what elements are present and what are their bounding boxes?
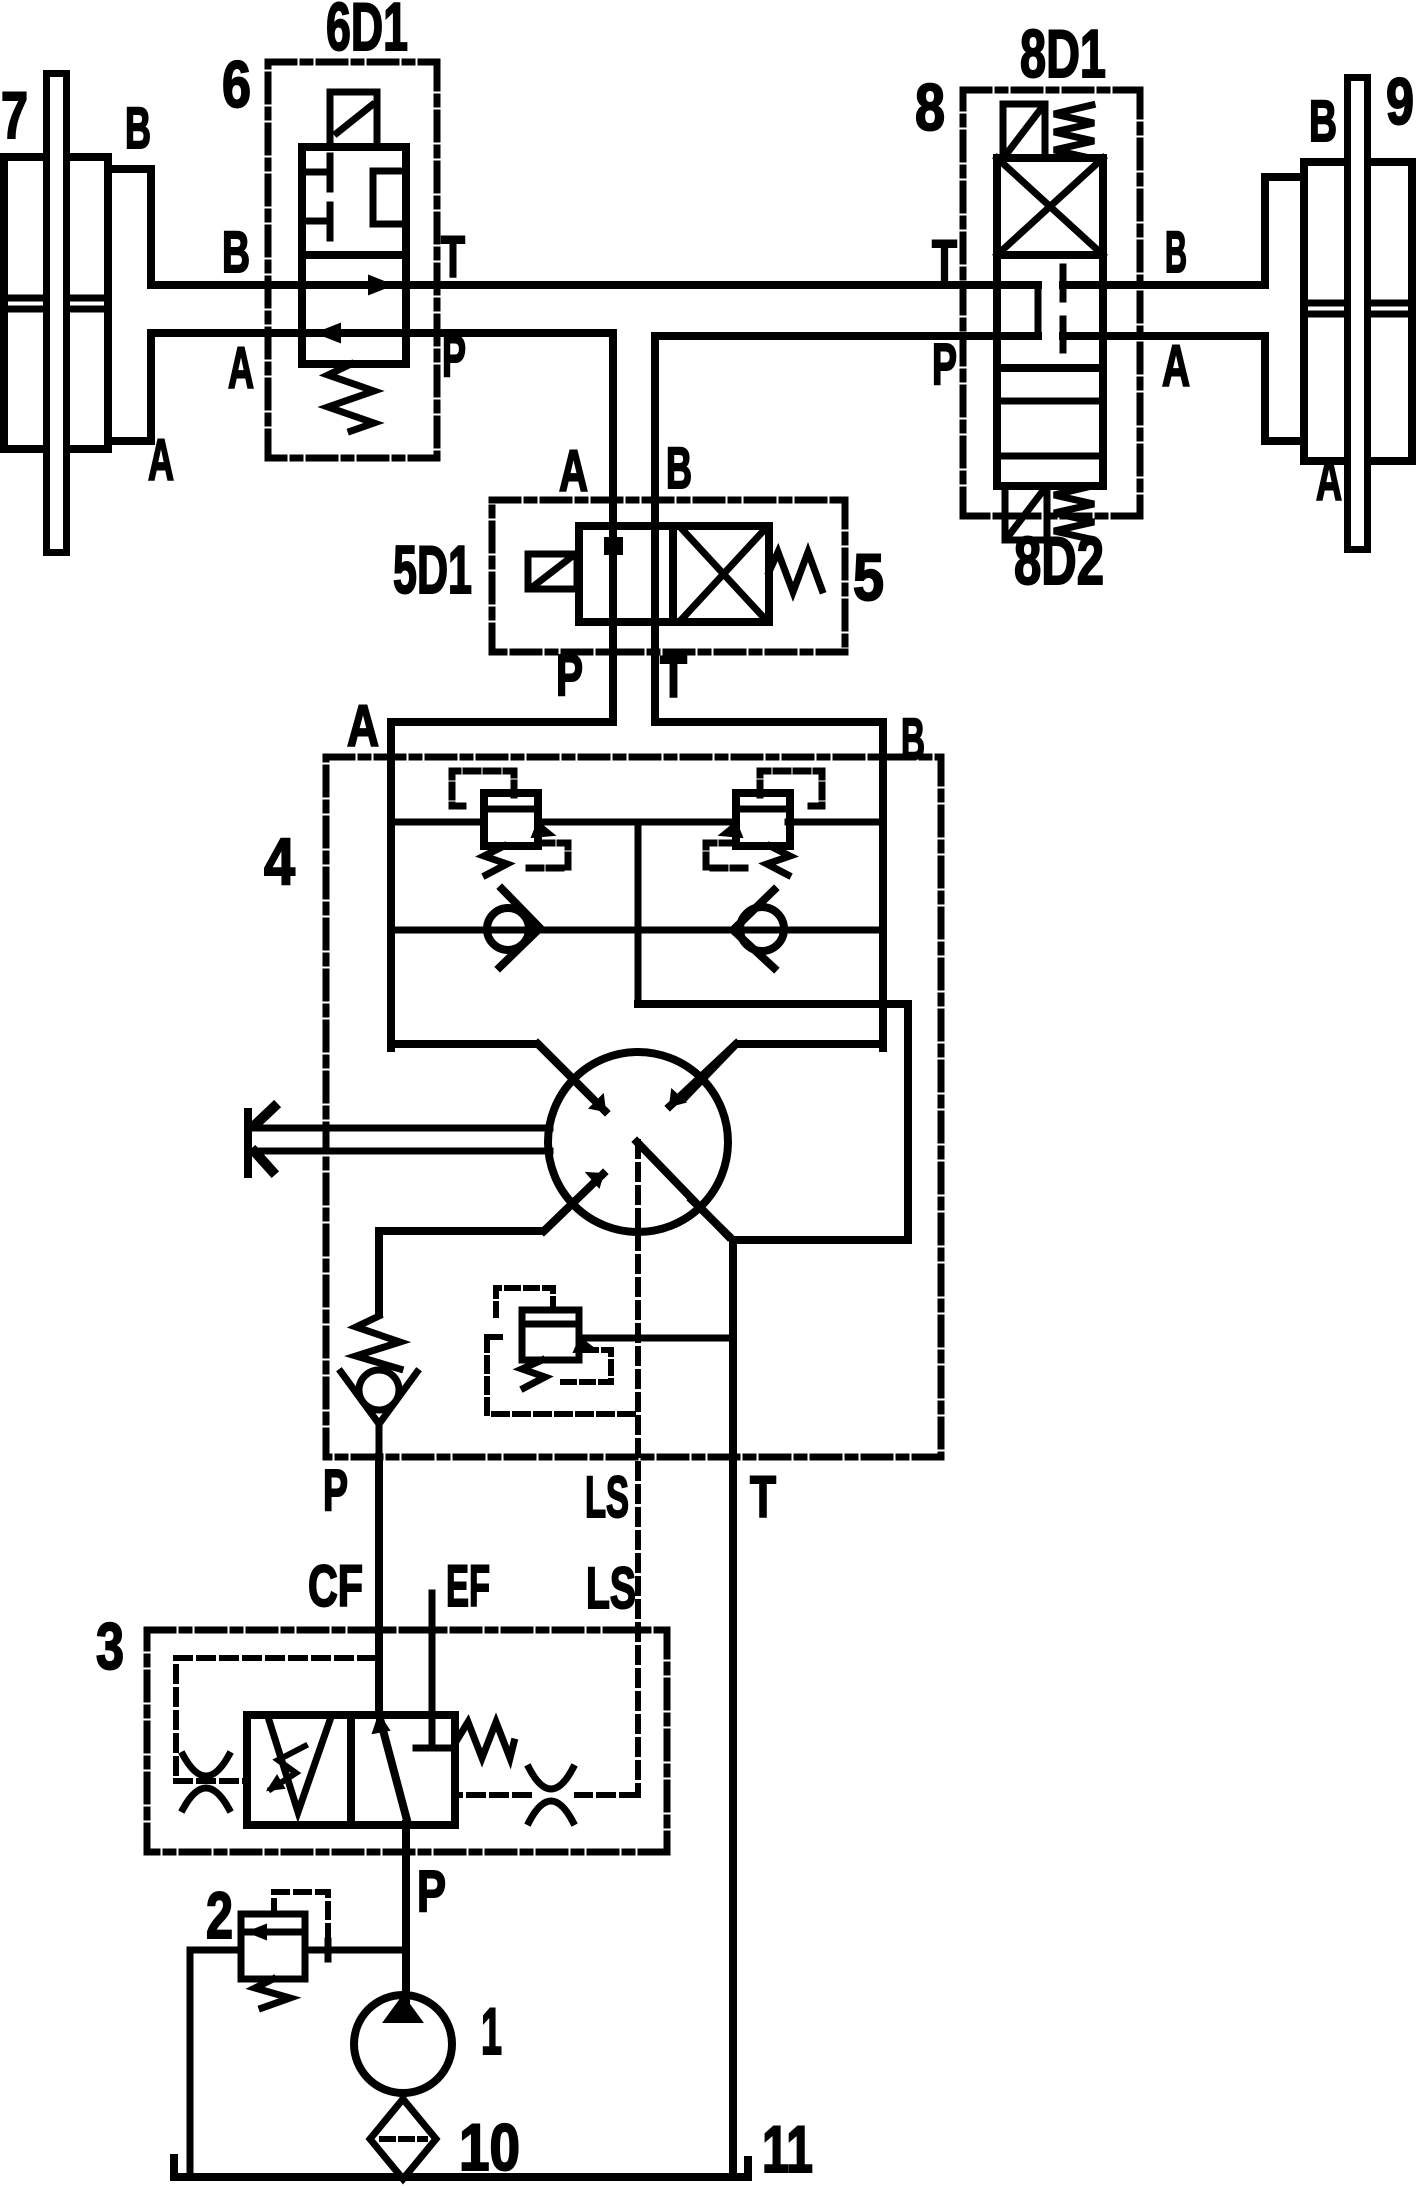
LS pilot line (dashed) [455, 1142, 638, 1795]
steering unit 4 enclosure (dash-dot) [326, 757, 941, 1457]
svg-text:B: B [1309, 89, 1337, 154]
relief valve 2 spring [255, 1979, 290, 2008]
valve 8 position dividers [997, 255, 1103, 368]
wire valve5 T to unit B [655, 718, 883, 726]
solenoid 8D2 [1005, 486, 1047, 540]
valve 8 bottom position lines [997, 401, 1103, 456]
priority valve proportional arrow [271, 1746, 305, 1789]
priority valve pilot line left (dashed) [176, 1658, 374, 1781]
relief valve 2 pilot (dashed) [274, 1892, 328, 1950]
cylinder 7 rod [47, 74, 67, 553]
priority valve divider [347, 1715, 355, 1825]
svg-text:B: B [666, 436, 692, 501]
filter 10 diamond [370, 2099, 436, 2179]
priority valve 3 enclosure (dash-dot) [147, 1630, 667, 1852]
svg-text:EF: EF [446, 1554, 490, 1619]
svg-text:T: T [441, 225, 465, 290]
valve 8 blocked stub lower [1060, 319, 1067, 350]
svg-text:A: A [1162, 334, 1190, 399]
wire relief2 to tank [190, 1950, 241, 2177]
valve 6 flow arrow on T line [369, 276, 392, 294]
CF flow arrowhead [373, 1715, 389, 1733]
wire check valve row [391, 927, 883, 934]
cylinder 7 barrel [4, 157, 108, 449]
valve 6 body [302, 147, 406, 364]
valve 6 position divider [302, 251, 406, 259]
relief valve 2 body [241, 1914, 305, 1979]
check valve with spring (unit 4 P line) [341, 1316, 417, 1457]
check valve left (unit 4) [487, 889, 540, 967]
svg-text:10: 10 [459, 2110, 520, 2184]
steering unit inner block left edge [387, 722, 395, 1048]
svg-text:A: A [347, 694, 379, 759]
cylinder 9 barrel [1304, 162, 1412, 461]
valve 6 flow arrow on P line [317, 324, 340, 342]
relief valve left (unit 4) [452, 771, 568, 875]
valve 8 body [997, 158, 1103, 486]
svg-text:LS: LS [585, 1465, 629, 1530]
LS relief valve (unit 4) [487, 1288, 634, 1414]
wire pump to filter [400, 2093, 407, 2100]
priority valve spring [457, 1722, 514, 1758]
svg-text:T: T [660, 645, 687, 710]
valve 6 blocked port stub 1 [302, 156, 330, 189]
steering wheel [248, 1107, 274, 1174]
relief valve 2 arrowhead [248, 1925, 266, 1939]
svg-text:B: B [901, 707, 925, 772]
priority valve body [247, 1715, 455, 1825]
wire relief row [391, 819, 883, 826]
svg-text:P: P [442, 324, 466, 389]
steering unit inner block bottom left [391, 1044, 590, 1096]
wire LS relief to T line [579, 1335, 733, 1342]
relief valve right (unit 4) [706, 771, 822, 875]
svg-text:3: 3 [96, 1609, 124, 1683]
wire P-line left segment [151, 329, 613, 337]
wire valve5 port B vertical [651, 336, 659, 722]
relief valve 2 internal line [248, 1929, 305, 1936]
svg-text:CF: CF [308, 1554, 363, 1619]
tank line 11 [174, 2158, 748, 2177]
wire valve5 port A vertical [609, 333, 617, 722]
wire cylinder9 port B [1265, 177, 1304, 285]
svg-text:B: B [222, 220, 250, 285]
steering unit center divider [635, 822, 642, 1004]
svg-text:6D1: 6D1 [326, 0, 408, 65]
svg-text:T: T [750, 1465, 776, 1530]
gerotor diagonal SE [637, 1142, 728, 1236]
svg-text:A: A [228, 336, 254, 401]
valve 5 enclosure (dashed) [492, 500, 845, 652]
steering unit inner block right edge [879, 722, 887, 1048]
priority valve left position V [269, 1720, 330, 1812]
gerotor arrow NE [670, 1044, 736, 1106]
svg-text:P: P [417, 1859, 446, 1924]
valve 5 body [579, 526, 769, 622]
wire gerotor to P branch [379, 1202, 574, 1313]
svg-text:1: 1 [481, 1994, 502, 2068]
svg-text:P: P [932, 332, 957, 397]
svg-text:6: 6 [222, 47, 251, 121]
wire cylinder7 port B [108, 169, 151, 285]
svg-text:P: P [323, 1458, 348, 1523]
valve 6 spring [328, 364, 374, 431]
svg-text:9: 9 [1386, 64, 1414, 138]
orifice right [529, 1768, 573, 1822]
valve 8 crossed position X [997, 158, 1103, 255]
wire valve5 P to unit A [391, 718, 613, 726]
svg-text:8: 8 [915, 70, 945, 144]
valve 5 plug marker on A line [605, 538, 622, 554]
check valve right (unit 4) [733, 890, 784, 968]
wire T-line main horizontal [151, 281, 1265, 289]
wire P port to CF [375, 1457, 383, 1715]
svg-text:8D1: 8D1 [1020, 16, 1106, 92]
valve 8 bottom spring [1054, 486, 1094, 539]
wire cylinder9 port A [1265, 336, 1304, 441]
valve 5 spring [769, 552, 822, 592]
svg-text:P: P [556, 643, 583, 708]
wire cylinder7 port A [108, 333, 151, 441]
valve 8 blocked stub upper [1060, 267, 1067, 299]
svg-text:LS: LS [586, 1556, 636, 1621]
svg-text:T: T [932, 229, 957, 294]
valve 8 top spring [1054, 105, 1094, 158]
cylinder 7 piston [4, 298, 108, 309]
svg-text:5: 5 [853, 540, 884, 614]
gerotor arrow SW [544, 1174, 603, 1231]
wire B-side return [638, 1004, 908, 1240]
svg-text:A: A [559, 439, 588, 504]
filter 10 dashed element [382, 2136, 425, 2142]
pump outlet triangle [384, 1996, 422, 2022]
wire P-line right segment [655, 332, 1265, 340]
valve 5 crossed position X [681, 528, 766, 620]
valve 8 enclosure (dash-dot) [963, 90, 1140, 516]
cylinder 9 rod [1348, 78, 1368, 550]
svg-text:11: 11 [762, 2112, 813, 2186]
wire EF line [416, 1593, 449, 1748]
svg-text:B: B [125, 96, 151, 161]
valve 6 enclosure (dash-dot) [268, 62, 437, 458]
orifice left [183, 1755, 229, 1809]
relief valve 2 pilot tick [325, 1941, 332, 1959]
valve 6 blocked port stub 2 [302, 205, 330, 238]
svg-text:5D1: 5D1 [393, 532, 472, 608]
svg-text:A: A [1316, 448, 1342, 513]
steering unit inner block bottom right [686, 1044, 883, 1096]
svg-text:B: B [1165, 220, 1187, 285]
solenoid 8D1 [1003, 104, 1045, 158]
wire P pump line [402, 1824, 410, 2000]
svg-text:2: 2 [206, 1878, 233, 1952]
valve 5 body divider [669, 526, 677, 622]
svg-text:4: 4 [264, 824, 295, 898]
gerotor arrow NW [538, 1044, 605, 1111]
svg-text:7: 7 [1, 78, 28, 152]
wire gerotor to T branch [692, 1200, 733, 2177]
steering shaft double line [252, 1128, 550, 1151]
wire relief2 to P line [305, 1947, 406, 1954]
valve 6 block rectangle [373, 171, 406, 224]
solenoid 6D1 [330, 92, 377, 147]
pump 1 [354, 1995, 452, 2093]
solenoid 5D1 [528, 554, 577, 589]
wire CF line into valve [379, 1715, 408, 1824]
svg-text:A: A [148, 428, 174, 493]
cylinder 9 piston [1304, 303, 1412, 314]
valve 8 center bypass notch [1035, 285, 1042, 336]
svg-text:8D2: 8D2 [1014, 523, 1104, 599]
gerotor circle [548, 1052, 728, 1232]
